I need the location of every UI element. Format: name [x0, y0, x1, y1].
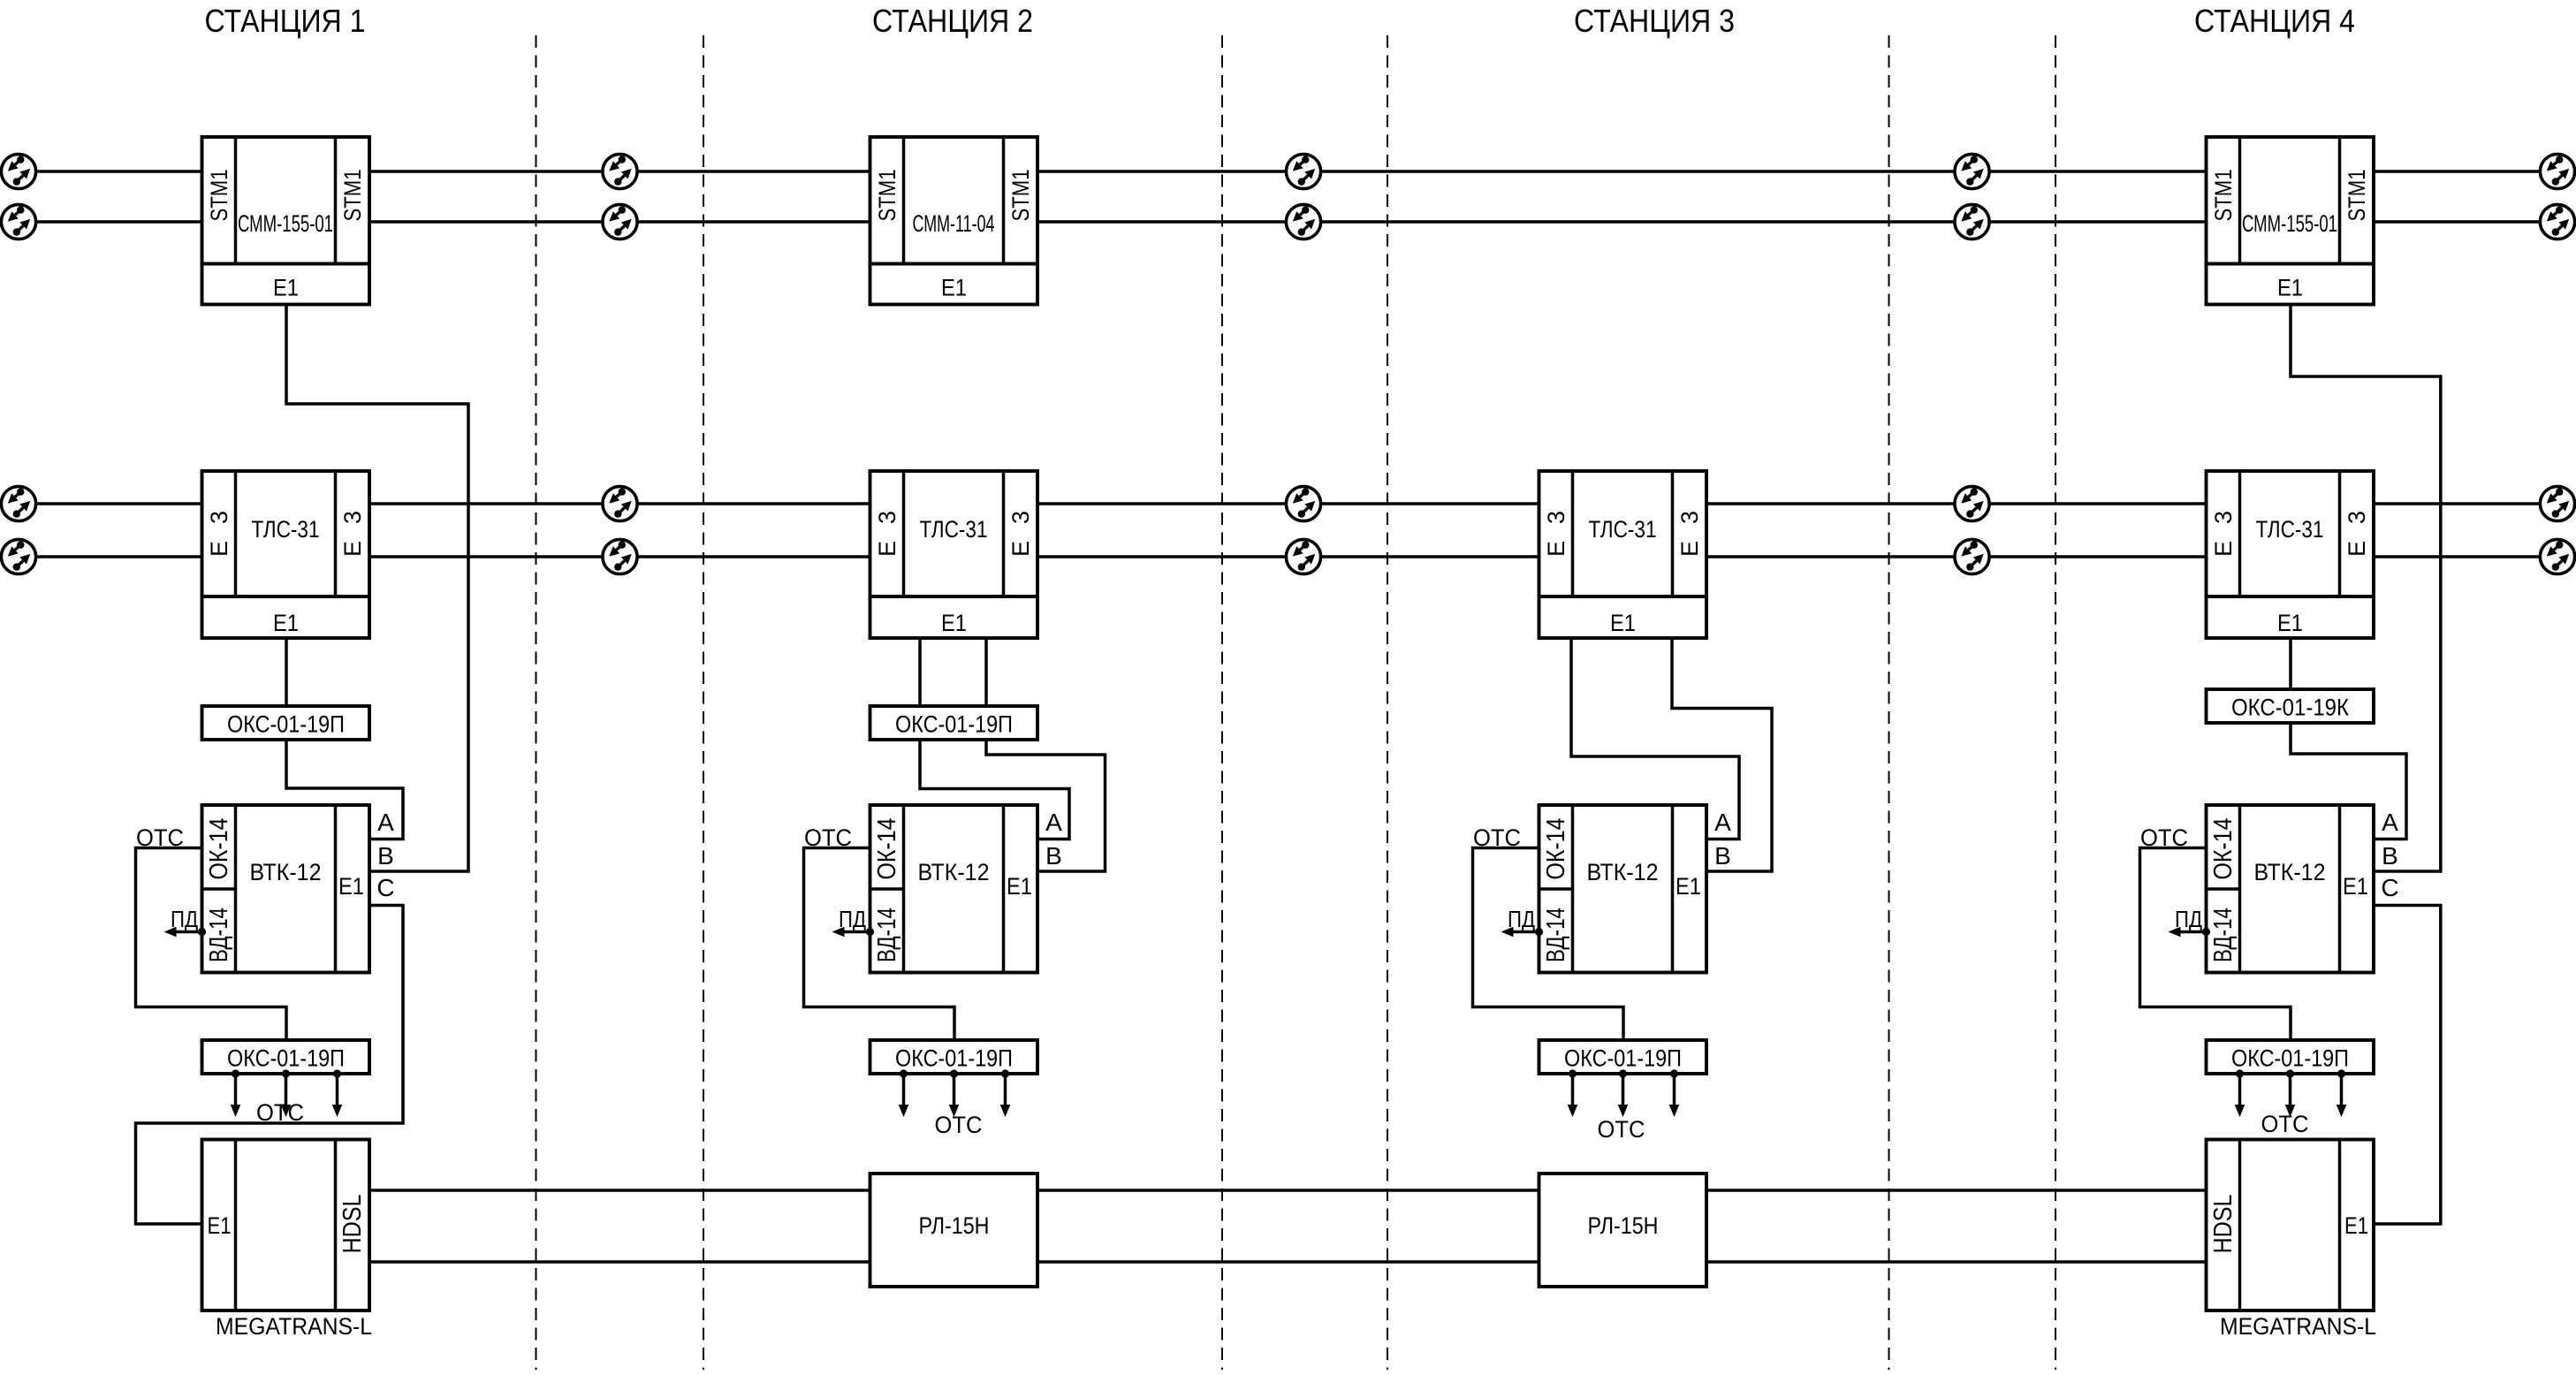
svg-text:ВД-14: ВД-14 — [873, 908, 901, 962]
svg-text:HDSL: HDSL — [338, 1195, 367, 1254]
svg-text:ОКС-01-19П: ОКС-01-19П — [1564, 1045, 1682, 1072]
svg-text:ОКС-01-19П: ОКС-01-19П — [2231, 1045, 2349, 1072]
svg-text:ВД-14: ВД-14 — [205, 908, 233, 962]
block TLS-31 station 1 — [202, 471, 370, 596]
OTC output arrow 1 station 2 — [900, 1069, 908, 1077]
wire HDSL line-1 station3-station4 — [1706, 1189, 2207, 1192]
wire E3 line-2 left stub station 1 — [35, 555, 202, 558]
optical connector circle col 5 STM1 row line-1 — [2540, 154, 2574, 188]
svg-text:Е1: Е1 — [2343, 873, 2368, 900]
wire OKS to VTK B station 2 — [986, 740, 1106, 871]
svg-text:В: В — [1714, 842, 1731, 870]
optical connector circle col 5 STM1 row line-2 — [2540, 204, 2574, 239]
optical connector circle col 4 E3 row line-2 — [1955, 539, 1989, 574]
svg-text:Е1: Е1 — [1007, 873, 1032, 900]
wire OKS to VTK A station 1 — [286, 740, 403, 839]
wire TLS E1 to VTK A station 3 — [1571, 638, 1739, 839]
OTC output arrow 3 station 2 — [1001, 1069, 1009, 1077]
block MEGATRANS-L station 1 — [202, 1140, 370, 1311]
block OKS-01-19P upper station 1 — [202, 706, 370, 740]
wire SMM E1 to VTK B station 4 — [2291, 305, 2441, 872]
wire HDSL line-1 station1-station2 — [369, 1189, 870, 1192]
optical connector circle col 3 STM1 row line-1 — [1286, 154, 1320, 188]
block TLS-31 station 2 — [870, 471, 1038, 596]
svg-text:ОК-14: ОК-14 — [1542, 818, 1570, 880]
wire TLS E1 to OKS line-2 station 2 — [984, 638, 988, 706]
wire E3 line-1 right stub station 4 — [2374, 502, 2541, 505]
block VTK-12 station 2 — [870, 805, 1038, 973]
svg-text:ПД: ПД — [1508, 906, 1535, 932]
svg-text:Е1: Е1 — [941, 275, 967, 301]
svg-text:РЛ-15Н: РЛ-15Н — [1588, 1212, 1659, 1239]
wire TLS E1 to OKS station 1 — [285, 638, 288, 706]
wire E3 line-1 station2-station3 — [1037, 502, 1539, 505]
PD output arrow station 3 — [1535, 928, 1543, 936]
wire VTK C to MEGATRANS E1 station 4 — [2374, 906, 2441, 1225]
svg-text:ОК-14: ОК-14 — [873, 818, 901, 880]
svg-text:Е1: Е1 — [208, 1212, 232, 1239]
svg-text:ОТС: ОТС — [2261, 1111, 2309, 1137]
block VTK-12 station 1 — [202, 805, 370, 973]
section boundary dashed line 6 — [2055, 35, 2056, 1370]
wire VTK C to MEGATRANS E1 station 1 — [136, 906, 404, 1225]
wire TLS E1 to OKS line-1 station 2 — [918, 638, 922, 706]
svg-text:ОТС: ОТС — [136, 824, 184, 851]
optical connector circle col 2 STM1 row line-1 — [603, 154, 637, 188]
wire E3 line-1 station1-station2 — [369, 502, 870, 505]
svg-text:MEGATRANS-L: MEGATRANS-L — [216, 1313, 372, 1340]
wire HDSL line-1 station2-station3 — [1037, 1189, 1539, 1192]
svg-text:ПД: ПД — [839, 906, 866, 932]
block SMM-155-01 station 1 — [202, 137, 370, 264]
svg-text:Е1: Е1 — [2277, 275, 2303, 301]
block VTK-12 station 3 — [1539, 805, 1707, 973]
optical connector circle col 1 STM1 row line-1 — [1, 154, 35, 188]
svg-text:Е1: Е1 — [1676, 873, 1701, 900]
svg-text:СММ-155-01: СММ-155-01 — [238, 210, 333, 237]
optical connector circle col 4 STM1 row line-2 — [1955, 204, 1989, 239]
svg-text:ВТК-12: ВТК-12 — [250, 859, 322, 885]
svg-text:ОКС-01-19П: ОКС-01-19П — [895, 1045, 1013, 1072]
block OKS-01-19P lower station 3 — [1539, 1040, 1707, 1074]
svg-text:ТЛС-31: ТЛС-31 — [920, 516, 988, 543]
block OKS-01-19P lower station 1 — [202, 1040, 370, 1074]
wire E3 line-2 station1-station2 — [369, 555, 870, 558]
wire STM1 line-1 station2-station4 — [1037, 170, 2207, 173]
svg-text:А: А — [2382, 809, 2398, 836]
OTC output arrow 1 station 1 — [232, 1069, 239, 1077]
OTC output arrow 2 station 2 — [950, 1069, 958, 1077]
OTC output arrow 2 station 4 — [2286, 1069, 2294, 1077]
optical connector circle col 1 E3 row line-2 — [1, 539, 35, 574]
section boundary dashed line 5 — [1888, 35, 1890, 1370]
svg-text:ВТК-12: ВТК-12 — [1587, 859, 1659, 885]
section boundary dashed line 1 — [536, 35, 537, 1370]
svg-text:STM1: STM1 — [206, 170, 232, 222]
wire SMM E1 to VTK B station 1 — [286, 305, 468, 872]
wire STM1 line-2 left stub station 1 — [35, 220, 202, 224]
svg-text:Е1: Е1 — [338, 873, 364, 900]
svg-text:ОТС: ОТС — [935, 1112, 983, 1138]
wire STM1 line-1 left stub station 1 — [35, 170, 202, 173]
wire STM1 line-1 right stub station 4 — [2374, 170, 2541, 173]
svg-text:Е1: Е1 — [2277, 610, 2303, 636]
wire OTC loop station 3 — [1473, 848, 1624, 1041]
block TLS-31 station 3 — [1539, 471, 1707, 596]
svg-text:ОКС-01-19К: ОКС-01-19К — [2231, 695, 2349, 721]
OTC output arrow 3 station 4 — [2337, 1069, 2345, 1077]
wire E3 line-2 station2-station3 — [1037, 555, 1539, 558]
svg-text:ВТК-12: ВТК-12 — [918, 859, 990, 885]
svg-text:ТЛС-31: ТЛС-31 — [252, 516, 320, 543]
svg-text:ОК-14: ОК-14 — [205, 818, 233, 880]
svg-text:ПД: ПД — [171, 906, 198, 932]
wire STM1 line-2 right stub station 4 — [2374, 220, 2541, 224]
OTC output arrow 1 station 3 — [1569, 1069, 1577, 1077]
OTC output arrow 2 station 3 — [1619, 1069, 1627, 1077]
svg-text:ОКС-01-19П: ОКС-01-19П — [895, 711, 1013, 738]
svg-text:С: С — [2381, 874, 2398, 901]
svg-text:ОКС-01-19П: ОКС-01-19П — [227, 711, 345, 738]
svg-text:РЛ-15Н: РЛ-15Н — [919, 1212, 990, 1239]
svg-text:ОТС: ОТС — [256, 1099, 304, 1126]
svg-text:А: А — [1714, 809, 1731, 836]
optical connector circle col 2 E3 row line-2 — [603, 539, 637, 574]
svg-text:MEGATRANS-L: MEGATRANS-L — [2220, 1313, 2376, 1340]
block OKS-01-19P lower station 2 — [870, 1040, 1038, 1074]
optical connector circle col 5 E3 row line-1 — [2540, 486, 2574, 520]
block RL-15N station 2 — [870, 1174, 1038, 1287]
optical connector circle col 2 STM1 row line-2 — [603, 204, 637, 239]
svg-text:Е1: Е1 — [273, 275, 299, 301]
wire OKS to VTK A station 2 — [920, 740, 1069, 839]
optical connector circle col 3 STM1 row line-2 — [1286, 204, 1320, 239]
svg-text:Е1: Е1 — [1610, 610, 1636, 636]
svg-text:СММ-155-01: СММ-155-01 — [2242, 210, 2337, 237]
wire TLS E1 to VTK B station 3 — [1672, 638, 1772, 871]
wire HDSL line-2 station3-station4 — [1706, 1260, 2207, 1264]
optical connector circle col 3 E3 row line-1 — [1286, 486, 1320, 520]
wire OTC loop station 1 — [136, 848, 287, 1041]
svg-text:ВД-14: ВД-14 — [2209, 908, 2238, 962]
svg-text:ОТС: ОТС — [1598, 1116, 1645, 1143]
PD output arrow station 2 — [866, 928, 874, 936]
optical connector circle col 4 STM1 row line-1 — [1955, 154, 1989, 188]
svg-text:ОТС: ОТС — [1473, 824, 1521, 851]
svg-text:Е1: Е1 — [2344, 1212, 2368, 1239]
svg-text:Е1: Е1 — [941, 610, 967, 636]
block MEGATRANS-L station 4 — [2207, 1140, 2375, 1311]
OTC output arrow 2 station 1 — [282, 1069, 290, 1077]
wire TLS E1 to OKS station 4 — [2289, 638, 2292, 689]
OTC output arrow 3 station 3 — [1670, 1069, 1678, 1077]
PD output arrow station 4 — [2202, 928, 2210, 936]
svg-text:Е1: Е1 — [273, 610, 299, 636]
wire OTC loop station 2 — [804, 848, 955, 1041]
wire E3 line-1 left stub station 1 — [35, 502, 202, 505]
svg-text:ТЛС-31: ТЛС-31 — [1589, 516, 1657, 543]
svg-text:ПД: ПД — [2175, 906, 2202, 932]
svg-text:А: А — [377, 809, 394, 836]
svg-text:ТЛС-31: ТЛС-31 — [2256, 516, 2324, 543]
block TLS-31 station 4 — [2207, 471, 2375, 596]
block SMM-11-04 station 2 — [870, 137, 1038, 264]
optical connector circle col 3 E3 row line-2 — [1286, 539, 1320, 574]
section boundary dashed line 2 — [703, 35, 704, 1370]
wire OKS to VTK A station 4 — [2291, 723, 2406, 839]
svg-text:В: В — [2382, 842, 2398, 870]
block VTK-12 station 4 — [2207, 805, 2375, 973]
wire E3 line-1 station3-station4 — [1706, 502, 2207, 505]
svg-text:СММ-11-04: СММ-11-04 — [913, 210, 995, 237]
block OKS-01-19P upper station 2 — [870, 706, 1038, 740]
svg-text:С: С — [376, 874, 394, 901]
wire STM1 line-2 station2-station4 — [1037, 220, 2207, 224]
svg-text:STM1: STM1 — [2210, 170, 2237, 222]
optical connector circle col 2 E3 row line-1 — [603, 486, 637, 520]
svg-text:СТАНЦИЯ 3: СТАНЦИЯ 3 — [1574, 3, 1735, 39]
wire STM1 line-1 station1-station2 — [369, 170, 870, 173]
svg-text:СТАНЦИЯ 1: СТАНЦИЯ 1 — [205, 3, 366, 39]
OTC output arrow 3 station 1 — [333, 1069, 341, 1077]
block RL-15N station 3 — [1539, 1174, 1707, 1287]
svg-text:ВД-14: ВД-14 — [1542, 908, 1570, 962]
svg-text:ВТК-12: ВТК-12 — [2254, 859, 2326, 885]
svg-text:СТАНЦИЯ 2: СТАНЦИЯ 2 — [872, 3, 1033, 39]
wire HDSL line-2 station1-station2 — [369, 1260, 870, 1264]
optical connector circle col 4 E3 row line-1 — [1955, 486, 1989, 520]
svg-text:В: В — [1045, 842, 1062, 870]
svg-text:ОКС-01-19П: ОКС-01-19П — [227, 1045, 345, 1072]
block SMM-155-01 station 4 — [2207, 137, 2375, 264]
svg-text:ОТС: ОТС — [804, 824, 852, 851]
PD output arrow station 1 — [198, 928, 206, 936]
optical connector circle col 5 E3 row line-2 — [2540, 539, 2574, 574]
svg-text:ОТС: ОТС — [2140, 824, 2188, 851]
wire STM1 line-2 station1-station2 — [369, 220, 870, 224]
svg-text:STM1: STM1 — [2344, 170, 2370, 222]
wire E3 line-2 station3-station4 — [1706, 555, 2207, 558]
wire E3 line-2 right stub station 4 — [2374, 555, 2541, 558]
optical connector circle col 1 E3 row line-1 — [1, 486, 35, 520]
block OKS-01-19P lower station 4 — [2207, 1040, 2375, 1074]
section boundary dashed line 3 — [1221, 35, 1223, 1370]
svg-text:STM1: STM1 — [874, 170, 900, 222]
svg-text:В: В — [377, 842, 394, 870]
optical connector circle col 1 STM1 row line-2 — [1, 204, 35, 239]
section boundary dashed line 4 — [1387, 35, 1388, 1370]
svg-text:STM1: STM1 — [339, 170, 366, 222]
wire OTC loop station 4 — [2140, 848, 2291, 1041]
wire HDSL line-2 station2-station3 — [1037, 1260, 1539, 1264]
svg-text:HDSL: HDSL — [2209, 1195, 2238, 1254]
svg-text:СТАНЦИЯ 4: СТАНЦИЯ 4 — [2194, 3, 2355, 39]
svg-text:STM1: STM1 — [1007, 170, 1034, 222]
block OKS-01-19K upper station 4 — [2207, 689, 2375, 723]
OTC output arrow 1 station 4 — [2236, 1069, 2244, 1077]
svg-text:ОК-14: ОК-14 — [2209, 818, 2238, 880]
svg-text:А: А — [1045, 809, 1062, 836]
